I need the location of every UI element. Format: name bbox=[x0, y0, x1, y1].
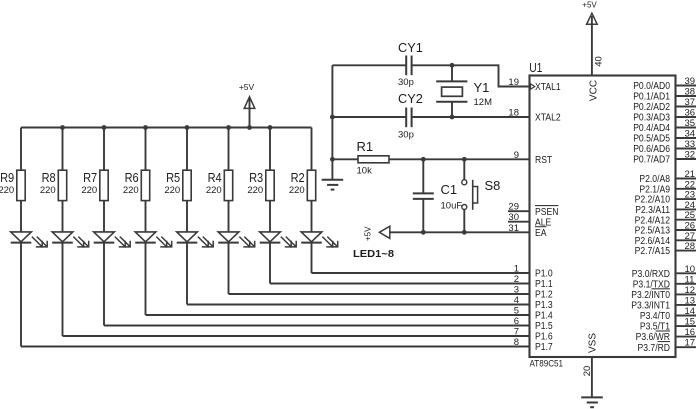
svg-text:P3.7/RD: P3.7/RD bbox=[638, 343, 671, 354]
svg-text:36: 36 bbox=[685, 108, 696, 119]
svg-text:1: 1 bbox=[514, 264, 519, 275]
svg-text:P3.2/INT0: P3.2/INT0 bbox=[631, 290, 670, 301]
svg-text:C1: C1 bbox=[441, 182, 458, 197]
resistor R2 220 bbox=[289, 170, 316, 200]
resistor R4 220 bbox=[206, 170, 233, 200]
svg-text:P0.5/AD5: P0.5/AD5 bbox=[633, 134, 670, 145]
pin P0.4/AD4 stub, label, pin number 35 bbox=[633, 118, 696, 134]
svg-text:4: 4 bbox=[514, 295, 519, 306]
capacitor C1 10uF bbox=[413, 159, 463, 232]
pin P2.2/A10 stub, label, pin number 23 bbox=[635, 190, 696, 206]
svg-text:+5V: +5V bbox=[582, 0, 597, 9]
svg-text:11: 11 bbox=[685, 274, 695, 285]
pin P2.3/A11 stub, label, pin number 24 bbox=[635, 200, 696, 216]
svg-text:35: 35 bbox=[685, 118, 696, 129]
svg-text:R1: R1 bbox=[357, 139, 374, 154]
svg-text:P1.3: P1.3 bbox=[535, 300, 553, 311]
svg-text:40: 40 bbox=[593, 56, 604, 67]
svg-text:EA: EA bbox=[535, 228, 547, 239]
resistor R9 220 bbox=[0, 170, 25, 200]
wire bus to R4 bbox=[228, 128, 230, 171]
wire bus to R8 bbox=[62, 128, 64, 171]
power +5V (resistor bus) bbox=[239, 82, 255, 127]
pin EA label (overline), pin number 31 bbox=[508, 223, 546, 239]
svg-text:220: 220 bbox=[0, 185, 14, 196]
pin P2.7/A15 stub, label, pin number 28 bbox=[635, 241, 696, 257]
svg-text:19: 19 bbox=[508, 77, 519, 88]
svg-text:R9: R9 bbox=[0, 170, 14, 185]
svg-text:P3.4/T0: P3.4/T0 bbox=[640, 311, 670, 322]
pin XTAL2 label, pin number 18 bbox=[508, 108, 561, 124]
ground (VSS pin 20) bbox=[581, 397, 603, 407]
svg-text:220: 220 bbox=[164, 185, 180, 196]
wire LED7 cathode down (R3 column) bbox=[269, 243, 271, 284]
pin P3.7/RD stub, label, pin number 17 bbox=[638, 338, 696, 354]
svg-text:220: 220 bbox=[206, 185, 222, 196]
pin P0.7/AD7 stub, label, pin number 32 bbox=[633, 150, 696, 166]
wire R1 to RST pin 9 bbox=[389, 158, 530, 160]
junction dots on +5V bus bbox=[60, 125, 272, 130]
wire VSS to ground bbox=[591, 357, 593, 397]
junction CY2 tap bbox=[330, 115, 335, 120]
pushbutton S8 bbox=[462, 159, 501, 232]
svg-text:XTAL2: XTAL2 bbox=[535, 113, 561, 124]
svg-text:R6: R6 bbox=[125, 170, 139, 185]
svg-text:LED1~8: LED1~8 bbox=[353, 248, 394, 260]
wire left vertical node down to ground bbox=[331, 65, 333, 180]
wire to chip P1.6 pin 7 bbox=[63, 335, 530, 337]
svg-text:P1.2: P1.2 bbox=[535, 290, 553, 301]
wire CY2 to XTAL2 bbox=[412, 116, 530, 118]
svg-text:PSEN: PSEN bbox=[535, 207, 558, 218]
pin P0.3/AD3 stub, label, pin number 36 bbox=[633, 108, 696, 124]
svg-text:18: 18 bbox=[508, 108, 519, 119]
pin XTAL1 label, pin number 19 bbox=[508, 77, 561, 93]
pin P0.1/AD1 stub, label, pin number 38 bbox=[633, 87, 696, 103]
svg-text:5: 5 bbox=[514, 306, 519, 317]
pin P2.6/A14 stub, label, pin number 27 bbox=[635, 231, 696, 247]
svg-text:9: 9 bbox=[514, 150, 519, 161]
wire to chip P1.1 pin 2 bbox=[270, 283, 530, 285]
svg-text:28: 28 bbox=[685, 241, 696, 252]
svg-text:+5V: +5V bbox=[364, 226, 373, 241]
pin P3.0/RXD stub, label, pin number 10 bbox=[632, 264, 696, 280]
svg-text:39: 39 bbox=[685, 76, 696, 87]
microcontroller U1 AT89C51 body bbox=[529, 60, 675, 370]
svg-text:220: 220 bbox=[81, 185, 97, 196]
wire to chip P1.4 pin 5 bbox=[146, 314, 530, 316]
wire to chip P1.5 pin 6 bbox=[104, 325, 530, 327]
pin P2.4/A12 stub, label, pin number 25 bbox=[635, 210, 696, 226]
svg-text:220: 220 bbox=[247, 185, 263, 196]
svg-text:AT89C51: AT89C51 bbox=[530, 359, 564, 370]
svg-text:P1.5: P1.5 bbox=[535, 321, 553, 332]
pin P3.3/INT1 stub, label, pin number 13 bbox=[631, 295, 696, 311]
wire R7 to LED3 bbox=[103, 201, 105, 233]
pin ALE label, pin number 30 bbox=[508, 212, 551, 228]
svg-text:+5V: +5V bbox=[239, 82, 255, 92]
pin P2.0/A8 stub, label, pin number 21 bbox=[639, 169, 696, 185]
wire CY2 left segment bbox=[332, 116, 406, 118]
wire bus to R9 bbox=[20, 128, 22, 171]
junction S8 top bbox=[462, 157, 467, 162]
wire R6 to LED4 bbox=[145, 201, 147, 233]
pin P1.3 label, pin number 4 bbox=[514, 295, 553, 311]
pin P0.5/AD5 stub, label, pin number 34 bbox=[633, 129, 696, 145]
svg-text:R5: R5 bbox=[166, 170, 180, 185]
svg-text:17: 17 bbox=[685, 338, 696, 349]
pin P1.7 label, pin number 8 bbox=[514, 337, 553, 353]
svg-text:Y1: Y1 bbox=[474, 80, 490, 95]
pin P2.5/A13 stub, label, pin number 26 bbox=[635, 221, 696, 237]
svg-text:14: 14 bbox=[685, 306, 696, 317]
junction crystal top bbox=[450, 63, 455, 68]
svg-text:R3: R3 bbox=[249, 170, 263, 185]
junction S8 bottom bbox=[462, 230, 467, 235]
svg-text:P1.4: P1.4 bbox=[535, 311, 553, 322]
svg-text:10k: 10k bbox=[357, 166, 373, 177]
junction RST tap bbox=[330, 157, 335, 162]
wire CY1 left to node bbox=[332, 64, 406, 66]
junction crystal bottom bbox=[450, 115, 455, 120]
wire bus to R3 bbox=[269, 128, 271, 171]
svg-text:34: 34 bbox=[685, 129, 696, 140]
svg-text:15: 15 bbox=[685, 317, 696, 328]
svg-text:37: 37 bbox=[685, 97, 696, 108]
svg-text:R2: R2 bbox=[291, 170, 305, 185]
LED8 (column R2) bbox=[301, 232, 338, 247]
ground (left, below R1 node) bbox=[322, 180, 344, 190]
svg-text:16: 16 bbox=[685, 327, 696, 338]
pin P0.2/AD2 stub, label, pin number 37 bbox=[633, 97, 696, 113]
wire R5 to LED5 bbox=[186, 201, 188, 233]
svg-text:12: 12 bbox=[685, 285, 696, 296]
svg-text:32: 32 bbox=[685, 150, 696, 161]
pin P1.2 label, pin number 3 bbox=[514, 285, 553, 301]
svg-text:P1.7: P1.7 bbox=[535, 342, 553, 353]
svg-text:30p: 30p bbox=[398, 77, 414, 88]
wire LED8 cathode down (R2 column) bbox=[311, 243, 313, 273]
svg-text:220: 220 bbox=[289, 185, 305, 196]
wire LED6 cathode down (R4 column) bbox=[228, 243, 230, 294]
LED6 (column R4) bbox=[218, 232, 255, 247]
pin P1.1 label, pin number 2 bbox=[514, 274, 553, 290]
junction C1 top bbox=[421, 157, 426, 162]
svg-text:10uF: 10uF bbox=[441, 201, 463, 212]
wire LED1 cathode down (R9 column) bbox=[20, 243, 22, 347]
wire R2 to LED8 bbox=[311, 201, 313, 233]
svg-text:U1: U1 bbox=[529, 60, 542, 75]
wire to chip P1.3 pin 4 bbox=[187, 304, 530, 306]
svg-text:P2.7/A15: P2.7/A15 bbox=[635, 246, 671, 257]
crystal Y1 12M bbox=[436, 65, 492, 117]
pin P0.6/AD6 stub, label, pin number 33 bbox=[633, 139, 696, 155]
svg-text:13: 13 bbox=[685, 295, 696, 306]
capacitor CY2 30p bbox=[398, 91, 423, 141]
wire bus to R2 bbox=[311, 128, 313, 171]
wire bus to R5 bbox=[186, 128, 188, 171]
svg-text:P3.0/RXD: P3.0/RXD bbox=[632, 269, 670, 280]
svg-text:RST: RST bbox=[535, 155, 552, 166]
capacitor CY1 30p bbox=[398, 40, 423, 88]
wire to chip P1.2 pin 3 bbox=[229, 293, 530, 295]
LED7 (column R3) bbox=[260, 232, 297, 247]
svg-text:P0.1/AD1: P0.1/AD1 bbox=[633, 92, 670, 103]
svg-text:R4: R4 bbox=[208, 170, 222, 185]
LED5 (column R5) bbox=[177, 232, 214, 247]
wire R4 to LED6 bbox=[228, 201, 230, 233]
wire LED4 cathode down (R6 column) bbox=[145, 243, 147, 315]
pin P3.1/TXD stub, label, pin number 11 bbox=[633, 274, 696, 290]
resistor R6 220 bbox=[123, 170, 150, 200]
resistor R1 10k bbox=[332, 139, 389, 177]
pin VCC label (rotated), pin number 40 bbox=[588, 56, 604, 101]
pin RST label, pin number 9 bbox=[514, 150, 552, 166]
svg-text:VCC: VCC bbox=[588, 80, 599, 101]
wire CY1 to XTAL1 corner bbox=[412, 65, 530, 86]
LED3 (column R7) bbox=[94, 232, 131, 247]
LED2 (column R8) bbox=[52, 232, 88, 247]
wire bus to R6 bbox=[145, 128, 147, 171]
pin P1.4 label, pin number 5 bbox=[514, 306, 553, 322]
wire R8 to LED2 bbox=[62, 201, 64, 233]
label LED1~8 bbox=[353, 248, 394, 260]
power +5V arrow (EA line) bbox=[364, 226, 390, 241]
svg-text:P0.2/AD2: P0.2/AD2 bbox=[633, 102, 670, 113]
svg-text:3: 3 bbox=[514, 285, 519, 296]
svg-text:12M: 12M bbox=[474, 97, 493, 108]
pin P2.1/A9 stub, label, pin number 22 bbox=[639, 179, 696, 195]
svg-text:P3.3/INT1: P3.3/INT1 bbox=[631, 301, 670, 312]
svg-text:S8: S8 bbox=[485, 178, 501, 193]
svg-text:7: 7 bbox=[514, 327, 519, 338]
svg-text:P0.0/AD0: P0.0/AD0 bbox=[633, 81, 670, 92]
pin P3.4/T0 stub, label, pin number 14 bbox=[640, 306, 696, 322]
svg-text:CY2: CY2 bbox=[398, 91, 423, 106]
resistor R7 220 bbox=[81, 170, 108, 200]
wire R3 to LED7 bbox=[269, 201, 271, 233]
resistor R3 220 bbox=[247, 170, 274, 200]
resistor R5 220 bbox=[164, 170, 191, 200]
svg-text:29: 29 bbox=[508, 202, 519, 213]
svg-text:8: 8 bbox=[514, 337, 519, 348]
pin P3.2/INT0 stub, label, pin number 12 bbox=[631, 285, 696, 301]
svg-text:6: 6 bbox=[514, 316, 519, 327]
LED1 (column R9) bbox=[11, 232, 48, 247]
wire to chip P1.7 pin 8 bbox=[21, 346, 530, 348]
svg-text:30: 30 bbox=[508, 212, 519, 223]
pin PSEN label (overline), pin number 29 bbox=[508, 202, 558, 218]
power +5V (VCC pin 40) bbox=[582, 0, 597, 75]
svg-text:P0.7/AD7: P0.7/AD7 bbox=[633, 155, 670, 166]
svg-text:2: 2 bbox=[514, 274, 519, 285]
svg-text:31: 31 bbox=[508, 223, 519, 234]
svg-text:R7: R7 bbox=[83, 170, 97, 185]
svg-text:220: 220 bbox=[40, 185, 56, 196]
svg-text:P0.4/AD4: P0.4/AD4 bbox=[633, 123, 670, 134]
svg-text:R8: R8 bbox=[42, 170, 56, 185]
wire +5V to EA pin 31 bbox=[390, 231, 530, 233]
svg-text:10: 10 bbox=[685, 264, 696, 275]
svg-text:P1.6: P1.6 bbox=[535, 332, 553, 343]
wire bus to R7 bbox=[103, 128, 105, 171]
junction C1 bottom bbox=[421, 230, 426, 235]
wire to chip P1.0 pin 1 bbox=[312, 272, 530, 274]
svg-text:P1.1: P1.1 bbox=[535, 279, 553, 290]
pin P1.0 label, pin number 1 bbox=[514, 264, 553, 280]
pin P3.5/T1 stub, label, pin number 15 bbox=[640, 317, 696, 333]
svg-text:XTAL1: XTAL1 bbox=[535, 82, 561, 93]
svg-text:P0.3/AD3: P0.3/AD3 bbox=[633, 113, 670, 124]
svg-text:P0.6/AD6: P0.6/AD6 bbox=[633, 144, 670, 155]
pin P3.6/WR stub, label, pin number 16 bbox=[636, 327, 696, 343]
pin P1.6 label, pin number 7 bbox=[514, 327, 553, 343]
pin P1.5 label, pin number 6 bbox=[514, 316, 553, 332]
wire R9 to LED1 bbox=[20, 201, 22, 233]
svg-text:220: 220 bbox=[123, 185, 139, 196]
clock input symbol XTAL1 bbox=[531, 84, 535, 90]
svg-text:P1.0: P1.0 bbox=[535, 269, 553, 280]
svg-text:30p: 30p bbox=[398, 130, 414, 141]
svg-text:38: 38 bbox=[685, 87, 696, 98]
LED4 (column R6) bbox=[135, 232, 172, 247]
wire PSEN stub pin 29 bbox=[508, 210, 530, 212]
wire ALE stub pin 30 bbox=[508, 221, 530, 223]
resistor R8 220 bbox=[40, 170, 67, 200]
pin P0.0/AD0 stub, label, pin number 39 bbox=[633, 76, 696, 92]
pin VSS label (rotated), pin number 20 bbox=[582, 333, 598, 377]
wire LED3 cathode down (R7 column) bbox=[103, 243, 105, 326]
svg-text:33: 33 bbox=[685, 139, 696, 150]
wire +5V bus (LED anode rail) bbox=[21, 127, 312, 129]
svg-text:CY1: CY1 bbox=[398, 40, 423, 55]
wire LED5 cathode down (R5 column) bbox=[186, 243, 188, 305]
wire LED2 cathode down (R8 column) bbox=[62, 243, 64, 336]
svg-text:VSS: VSS bbox=[588, 333, 599, 353]
